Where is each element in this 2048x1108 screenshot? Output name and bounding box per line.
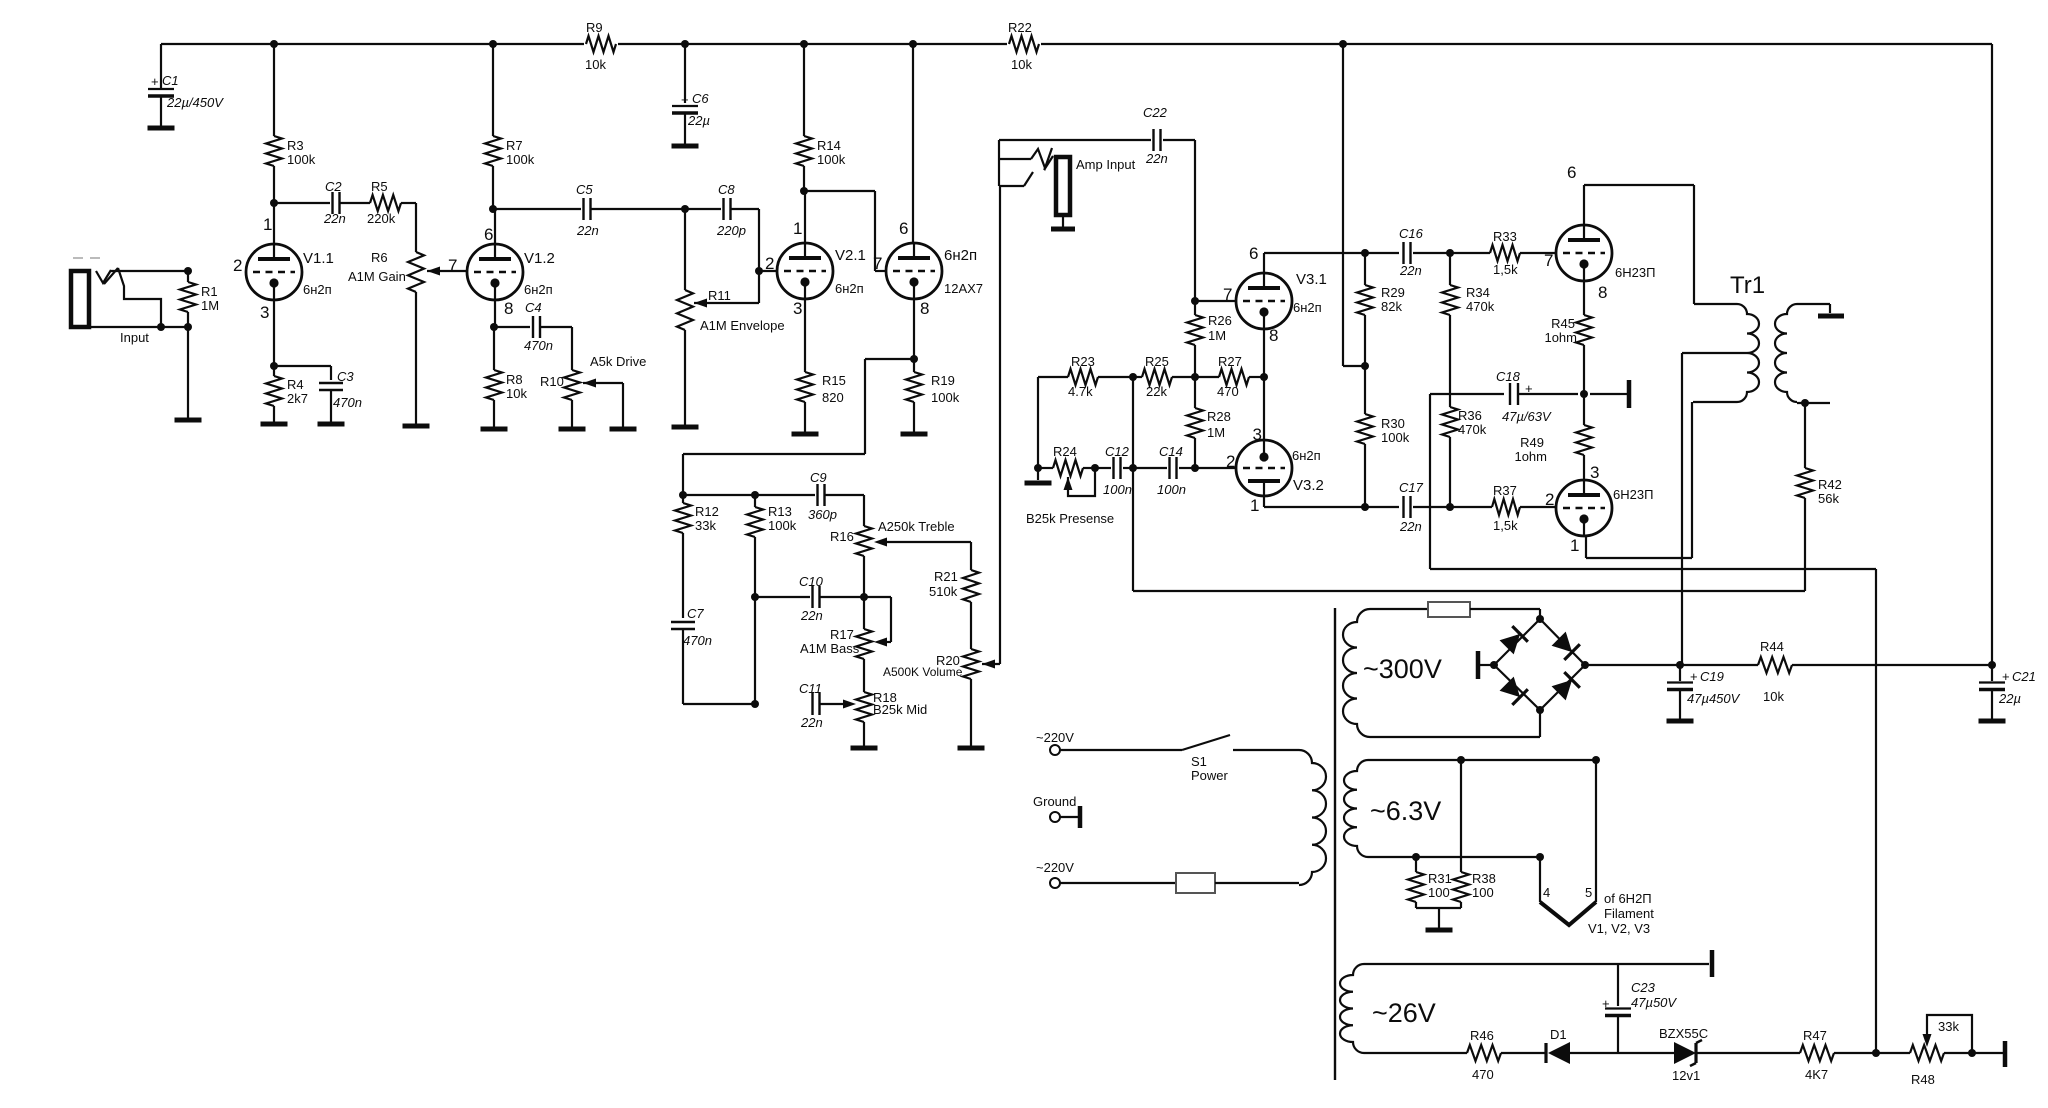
wire: C7 bottom bbox=[683, 703, 755, 705]
svg-text:470: 470 bbox=[1217, 384, 1239, 399]
svg-text:R21: R21 bbox=[934, 569, 958, 584]
wire: to V2.2 grid bbox=[804, 190, 875, 192]
node: R24 right bbox=[1091, 464, 1099, 472]
svg-text:470k: 470k bbox=[1466, 299, 1495, 314]
resistor R13 100k bbox=[754, 495, 756, 507]
svg-text:~6.3V: ~6.3V bbox=[1370, 796, 1441, 826]
capacitor C11 22n bbox=[811, 693, 813, 715]
svg-text:C4: C4 bbox=[525, 300, 542, 315]
ground (R4) bbox=[261, 422, 288, 427]
svg-text:470n: 470n bbox=[524, 338, 553, 353]
wire: V3 shared cathode bbox=[1263, 329, 1265, 440]
node: C12/C14/NFB bbox=[1129, 464, 1137, 472]
capacitor C19 47u450V bbox=[1679, 665, 1681, 681]
svg-text:3: 3 bbox=[793, 299, 802, 318]
svg-text:3: 3 bbox=[1590, 463, 1599, 482]
ground (R10) bbox=[559, 427, 586, 432]
wire: V1.1 anode to C2 bbox=[274, 202, 330, 204]
node: R34 top bbox=[1446, 249, 1454, 257]
resistor R38 100 bbox=[1460, 760, 1462, 872]
potentiometer R10 A5k Drive bbox=[564, 370, 580, 400]
node: R14 bottom / V2.1 anode bbox=[800, 187, 808, 195]
wire: V1.2 cathode bbox=[494, 300, 496, 327]
svg-text:3: 3 bbox=[260, 303, 269, 322]
resistor R27 470 bbox=[1219, 369, 1249, 385]
amp input jack bbox=[998, 140, 1000, 159]
wire: bias row bbox=[1364, 1052, 1467, 1054]
capacitor C8 220p bbox=[685, 208, 721, 210]
svg-text:A250k Treble: A250k Treble bbox=[878, 519, 955, 534]
svg-text:R27: R27 bbox=[1218, 354, 1242, 369]
ground (input) bbox=[175, 418, 202, 423]
svg-text:6н2п: 6н2п bbox=[1292, 448, 1321, 463]
svg-text:R29: R29 bbox=[1381, 285, 1405, 300]
wire: V4 anode to Tr1 bbox=[1583, 185, 1585, 225]
svg-text:R42: R42 bbox=[1818, 477, 1842, 492]
resistor R28 1M bbox=[1194, 377, 1196, 408]
svg-text:6: 6 bbox=[484, 225, 493, 244]
resistor R8 10k bbox=[493, 327, 495, 370]
node: sleeve/arm bbox=[157, 323, 165, 331]
svg-text:R24: R24 bbox=[1053, 444, 1077, 459]
svg-text:of 6Н2П: of 6Н2П bbox=[1604, 891, 1652, 906]
svg-text:V3.2: V3.2 bbox=[1293, 477, 1324, 494]
ground (amp jack) bbox=[1051, 227, 1075, 232]
winding ~26V bbox=[1340, 964, 1364, 1053]
potentiometer R11 A1M Envelope bbox=[684, 209, 686, 290]
svg-text:47µ50V: 47µ50V bbox=[1631, 995, 1677, 1010]
svg-text:R46: R46 bbox=[1470, 1028, 1494, 1043]
svg-text:33k: 33k bbox=[1938, 1019, 1959, 1034]
node: pin4 feed bbox=[1536, 853, 1544, 861]
capacitor C7 470n bbox=[671, 621, 695, 623]
wire: V5 anode to Tr1 bottom bbox=[1585, 536, 1587, 558]
node: cathode tap bbox=[910, 355, 918, 363]
node: R1 bottom bbox=[184, 323, 192, 331]
tube V3.1 triode 6n2p bbox=[1236, 273, 1292, 329]
svg-text:47µ450V: 47µ450V bbox=[1687, 691, 1741, 706]
svg-text:C18: C18 bbox=[1496, 369, 1521, 384]
svg-text:R19: R19 bbox=[931, 373, 955, 388]
svg-text:V1, V2, V3: V1, V2, V3 bbox=[1588, 921, 1650, 936]
capacitor C10 22n bbox=[755, 596, 810, 598]
node: R29/R30 bbox=[1361, 362, 1369, 370]
svg-text:C19: C19 bbox=[1700, 669, 1724, 684]
svg-text:R7: R7 bbox=[506, 138, 523, 153]
svg-text:6н2п: 6н2п bbox=[1293, 300, 1322, 315]
terminal ~220V line bbox=[1050, 745, 1060, 755]
svg-text:C17: C17 bbox=[1399, 480, 1424, 495]
wire: tone stack top row bbox=[683, 494, 815, 496]
ground (R11) bbox=[672, 425, 699, 430]
capacitor C23 47u50V bbox=[1617, 964, 1619, 1006]
svg-text:R45: R45 bbox=[1551, 316, 1575, 331]
svg-text:C22: C22 bbox=[1143, 105, 1168, 120]
winding ~300V bbox=[1343, 609, 1370, 737]
svg-text:+: + bbox=[681, 92, 689, 107]
svg-text:Amp Input: Amp Input bbox=[1076, 157, 1136, 172]
terminal (C18) bbox=[1627, 380, 1632, 408]
capacitor C6 22u bbox=[684, 44, 686, 103]
ground (C19) bbox=[1667, 719, 1694, 724]
node: V3.2 grid bbox=[1191, 464, 1199, 472]
capacitor C3 470n bbox=[274, 365, 331, 367]
svg-text:2: 2 bbox=[1545, 490, 1554, 509]
bridge rectifier bbox=[1494, 619, 1540, 665]
svg-text:+: + bbox=[1602, 996, 1610, 1011]
svg-text:R9: R9 bbox=[586, 20, 603, 35]
svg-text:V1.2: V1.2 bbox=[524, 250, 555, 267]
svg-text:22µ/450V: 22µ/450V bbox=[166, 95, 224, 110]
resistor R14 100k bbox=[803, 44, 805, 136]
wire: V2.2 cathode to tone stack bbox=[865, 358, 914, 360]
svg-text:R34: R34 bbox=[1466, 285, 1490, 300]
resistor R12 33k bbox=[682, 495, 684, 503]
node: R13 bottom bbox=[751, 593, 759, 601]
svg-text:100k: 100k bbox=[931, 390, 960, 405]
svg-text:R30: R30 bbox=[1381, 416, 1405, 431]
svg-text:A1M Envelope: A1M Envelope bbox=[700, 318, 785, 333]
node: speaker out bbox=[1801, 399, 1809, 407]
resistor R5 220k bbox=[370, 195, 401, 211]
filament connector pins 4/5 bbox=[1539, 857, 1541, 902]
node: rail junction V2.2 anode bbox=[909, 40, 917, 48]
node: V2.1 grid bbox=[755, 267, 763, 275]
node: R30 bottom bbox=[1361, 503, 1369, 511]
svg-text:C21: C21 bbox=[2012, 669, 2036, 684]
svg-text:7: 7 bbox=[1223, 285, 1232, 304]
svg-text:100k: 100k bbox=[768, 518, 797, 533]
svg-text:7: 7 bbox=[1544, 251, 1553, 270]
svg-text:6: 6 bbox=[1567, 163, 1576, 182]
Tr1 secondary bottom bbox=[1797, 402, 1830, 404]
capacitor C17 22n bbox=[1402, 496, 1404, 518]
svg-text:3: 3 bbox=[1253, 425, 1262, 444]
capacitor C9 360p bbox=[816, 484, 818, 506]
svg-text:8: 8 bbox=[920, 299, 929, 318]
fuse (HT) bbox=[1428, 602, 1470, 617]
node: V3 cathodes bbox=[1260, 373, 1268, 381]
svg-text:R48: R48 bbox=[1911, 1072, 1935, 1087]
potentiometer R16 A250k Treble bbox=[863, 495, 865, 526]
ground (R8) bbox=[481, 427, 508, 432]
ground (C6) bbox=[672, 144, 699, 149]
svg-text:R5: R5 bbox=[371, 179, 388, 194]
wire: amp input line bbox=[999, 139, 1151, 141]
svg-text:R26: R26 bbox=[1208, 313, 1232, 328]
node: bridge bottom bbox=[1536, 706, 1544, 714]
switch S1 Power bbox=[1060, 749, 1182, 751]
svg-text:C11: C11 bbox=[799, 681, 822, 696]
svg-text:D1: D1 bbox=[1550, 1027, 1567, 1042]
svg-text:220p: 220p bbox=[716, 223, 746, 238]
resistor R47 4K7 bbox=[1800, 1045, 1834, 1061]
node: R36 bottom bbox=[1446, 503, 1454, 511]
node: R38 top bbox=[1457, 756, 1465, 764]
node: R13 top bbox=[751, 491, 759, 499]
svg-text:C2: C2 bbox=[325, 179, 342, 194]
svg-text:C8: C8 bbox=[718, 182, 735, 197]
ground (speaker) bbox=[1818, 314, 1844, 319]
svg-text:6н2п: 6н2п bbox=[944, 247, 977, 264]
Tr1 secondary top to ground bbox=[1797, 303, 1830, 305]
potentiometer R24 B25k Presense bbox=[1034, 464, 1042, 472]
wire: input ground bbox=[187, 327, 189, 418]
node: rail junction R14 bbox=[800, 40, 808, 48]
mains transformer primary bbox=[1299, 750, 1326, 885]
node: C19/R44 bbox=[1676, 661, 1684, 669]
svg-text:6Н23П: 6Н23П bbox=[1613, 487, 1653, 502]
svg-text:R23: R23 bbox=[1071, 354, 1095, 369]
svg-text:10k: 10k bbox=[585, 57, 606, 72]
svg-text:R8: R8 bbox=[506, 372, 523, 387]
svg-text:C12: C12 bbox=[1105, 444, 1130, 459]
svg-text:R4: R4 bbox=[287, 377, 304, 392]
ground (R10 wiper) bbox=[610, 427, 637, 432]
node: R1 top bbox=[184, 267, 192, 275]
node: V1.2 anode bbox=[489, 205, 497, 213]
node: bridge left bbox=[1490, 661, 1498, 669]
svg-text:22µ: 22µ bbox=[687, 113, 710, 128]
svg-text:100k: 100k bbox=[817, 152, 846, 167]
svg-text:22n: 22n bbox=[1399, 519, 1422, 534]
potentiometer R48 33k bbox=[1910, 1045, 1944, 1061]
ground (R15) bbox=[792, 432, 819, 437]
potentiometer R17 A1M Bass bbox=[863, 597, 865, 629]
node: R25/R27/R26/R28 bbox=[1191, 373, 1199, 381]
svg-text:R47: R47 bbox=[1803, 1028, 1827, 1043]
resistor R1 1M bbox=[187, 271, 189, 282]
svg-text:R25: R25 bbox=[1145, 354, 1169, 369]
capacitor C21 22u bbox=[1991, 665, 1993, 681]
resistor R25 22k bbox=[1142, 369, 1172, 385]
svg-text:6н2п: 6н2п bbox=[835, 281, 864, 296]
svg-text:C10: C10 bbox=[799, 574, 824, 589]
svg-text:8: 8 bbox=[1269, 326, 1278, 345]
node: bridge right bbox=[1581, 661, 1589, 669]
svg-text:1,5k: 1,5k bbox=[1493, 262, 1518, 277]
svg-text:10k: 10k bbox=[1763, 689, 1784, 704]
node: C21/R44 bbox=[1988, 661, 1996, 669]
resistor R45 1ohm bbox=[1583, 281, 1585, 315]
ground (filament) bbox=[1426, 928, 1453, 933]
svg-text:C9: C9 bbox=[810, 470, 827, 485]
svg-text:C14: C14 bbox=[1159, 444, 1183, 459]
ground (R20) bbox=[958, 746, 985, 751]
svg-text:100n: 100n bbox=[1103, 482, 1132, 497]
ground (C3) bbox=[318, 422, 345, 427]
resistor R44 10k bbox=[1680, 664, 1758, 666]
ground (C1) bbox=[148, 126, 175, 131]
svg-text:R33: R33 bbox=[1493, 229, 1517, 244]
node: R23/R25 bbox=[1129, 373, 1137, 381]
Tr1 primary center tap bbox=[1682, 352, 1747, 354]
resistor R4 2k7 bbox=[273, 366, 275, 376]
svg-text:C3: C3 bbox=[337, 369, 354, 384]
svg-text:Input: Input bbox=[120, 330, 149, 345]
tube V5 output 6N23P lower bbox=[1556, 480, 1612, 536]
resistor R30 100k bbox=[1364, 366, 1366, 414]
wire: C22 to V3.1 grid bbox=[1194, 140, 1196, 301]
svg-text:C6: C6 bbox=[692, 91, 709, 106]
tube V2.2 triode 6n2p/12AX7 bbox=[886, 243, 942, 299]
diode D1 bbox=[1548, 1042, 1570, 1064]
terminal ~220V neutral bbox=[1050, 878, 1060, 888]
svg-text:6: 6 bbox=[899, 219, 908, 238]
svg-text:R44: R44 bbox=[1760, 639, 1784, 654]
svg-text:1ohm: 1ohm bbox=[1544, 330, 1577, 345]
input jack bbox=[71, 271, 89, 327]
svg-text:2: 2 bbox=[233, 256, 242, 275]
tube V1.1 triode 6n2p bbox=[246, 244, 302, 300]
Tr1 primary bottom bbox=[1693, 401, 1737, 403]
svg-text:6Н23П: 6Н23П bbox=[1615, 265, 1655, 280]
svg-text:C5: C5 bbox=[576, 182, 593, 197]
wire: V1.1 cathode bbox=[273, 300, 275, 366]
winding ~6.3V bbox=[1344, 760, 1368, 857]
svg-text:820: 820 bbox=[822, 390, 844, 405]
svg-text:R3: R3 bbox=[287, 138, 304, 153]
svg-text:R13: R13 bbox=[768, 504, 792, 519]
resistor R22 bbox=[1007, 32, 1041, 56]
wire: B+ drop to phase inverter bbox=[1342, 44, 1344, 366]
resistor R29 82k bbox=[1364, 253, 1366, 285]
diode bridge D-bottomright bbox=[1551, 672, 1580, 701]
svg-text:2k7: 2k7 bbox=[287, 391, 308, 406]
terminal (bias out) bbox=[2003, 1041, 2008, 1067]
fuse (mains) bbox=[1176, 873, 1215, 893]
svg-text:100: 100 bbox=[1472, 885, 1494, 900]
svg-text:100k: 100k bbox=[1381, 430, 1410, 445]
svg-text:100k: 100k bbox=[506, 152, 535, 167]
svg-text:6н2п: 6н2п bbox=[524, 282, 553, 297]
svg-text:22k: 22k bbox=[1146, 384, 1167, 399]
resistor R31 100 bbox=[1415, 857, 1417, 872]
svg-text:4.7k: 4.7k bbox=[1068, 384, 1093, 399]
svg-text:R16: R16 bbox=[830, 529, 854, 544]
svg-text:~26V: ~26V bbox=[1372, 998, 1436, 1028]
capacitor C2 22n bbox=[331, 192, 333, 214]
terminal Ground bbox=[1050, 812, 1060, 822]
svg-text:BZX55C: BZX55C bbox=[1659, 1026, 1708, 1041]
svg-text:S1: S1 bbox=[1191, 754, 1207, 769]
node: R3 bottom / V1.1 anode bbox=[270, 199, 278, 207]
svg-text:4K7: 4K7 bbox=[1805, 1067, 1828, 1082]
resistor R15 820 bbox=[797, 372, 813, 402]
node: cathode/C4 bbox=[490, 323, 498, 331]
svg-text:R37: R37 bbox=[1493, 483, 1517, 498]
svg-text:470n: 470n bbox=[683, 633, 712, 648]
faint cable dashes bbox=[73, 257, 83, 259]
svg-text:10k: 10k bbox=[1011, 57, 1032, 72]
wire: B+ raw bbox=[1585, 664, 1680, 666]
svg-text:7: 7 bbox=[873, 254, 882, 273]
wire: bias feed bbox=[1429, 394, 1431, 569]
svg-text:R49: R49 bbox=[1520, 435, 1544, 450]
svg-text:A1M Bass: A1M Bass bbox=[800, 641, 860, 656]
node: C5/C8/R11 bbox=[681, 205, 689, 213]
capacitor C1 22u/450V bbox=[160, 44, 162, 89]
diode bridge D-bottomleft bbox=[1499, 676, 1528, 705]
svg-text:+: + bbox=[2002, 669, 2010, 684]
resistor R9 bbox=[584, 32, 618, 56]
wire: sleeve bottom bbox=[89, 326, 188, 328]
svg-text:R17: R17 bbox=[830, 627, 854, 642]
Tr1 primary winding bbox=[1737, 304, 1759, 402]
svg-text:22n: 22n bbox=[1399, 263, 1422, 278]
terminal (26V top) bbox=[1710, 950, 1715, 977]
tube V2.1 triode 6n2p bbox=[777, 243, 833, 299]
svg-text:A500K Volume: A500K Volume bbox=[883, 665, 963, 679]
zener BZX55C 12v1 bbox=[1674, 1042, 1696, 1064]
wire: V2.2 cathode bbox=[913, 299, 915, 372]
resistor R46 470 bbox=[1467, 1045, 1501, 1061]
svg-text:B25k Presense: B25k Presense bbox=[1026, 511, 1114, 526]
resistor R3 100k bbox=[273, 44, 275, 136]
tube V4 output 6N23P upper bbox=[1556, 225, 1612, 281]
node: R48 right bbox=[1968, 1049, 1976, 1057]
potentiometer R20 A500K Volume bbox=[963, 649, 979, 679]
svg-text:R28: R28 bbox=[1207, 409, 1231, 424]
svg-text:47µ/63V: 47µ/63V bbox=[1502, 409, 1552, 424]
svg-text:R6: R6 bbox=[371, 250, 388, 265]
svg-text:R12: R12 bbox=[695, 504, 719, 519]
svg-text:22n: 22n bbox=[800, 608, 823, 623]
capacitor C14 100n bbox=[1133, 467, 1167, 469]
svg-text:C7: C7 bbox=[687, 606, 704, 621]
wire: B+ top rail bbox=[161, 43, 1992, 45]
ground (R24) bbox=[1037, 468, 1039, 480]
svg-text:22n: 22n bbox=[1145, 151, 1168, 166]
svg-text:Ground: Ground bbox=[1033, 794, 1076, 809]
svg-text:R10: R10 bbox=[540, 374, 564, 389]
capacitor C18 47u/63V bbox=[1509, 383, 1511, 405]
terminal (bridge left) bbox=[1480, 664, 1494, 666]
node: V3.1 grid bbox=[1191, 297, 1199, 305]
diode bridge D-topleft bbox=[1499, 626, 1528, 655]
ground (R6) bbox=[403, 424, 430, 429]
svg-text:100n: 100n bbox=[1157, 482, 1186, 497]
tube V1.2 triode 6n2p bbox=[467, 244, 523, 300]
node: R16 bottom bbox=[860, 593, 868, 601]
chassis ground bar bbox=[1078, 806, 1083, 828]
svg-text:22µ: 22µ bbox=[1998, 691, 2021, 706]
svg-text:1: 1 bbox=[1570, 536, 1579, 555]
svg-text:12v1: 12v1 bbox=[1672, 1068, 1700, 1083]
resistor R33 1,5k bbox=[1490, 245, 1520, 261]
diode bridge D-topright bbox=[1551, 631, 1580, 660]
resistor R42 56k bbox=[1804, 403, 1806, 468]
resistor R34 470k bbox=[1449, 253, 1451, 285]
svg-text:R31: R31 bbox=[1428, 871, 1452, 886]
svg-text:220k: 220k bbox=[367, 211, 396, 226]
svg-text:12AX7: 12AX7 bbox=[944, 281, 983, 296]
svg-text:10k: 10k bbox=[506, 386, 527, 401]
svg-text:R11: R11 bbox=[708, 288, 731, 303]
capacitor C5 22n bbox=[493, 208, 581, 210]
capacitor C4 470n bbox=[494, 326, 530, 328]
svg-text:2: 2 bbox=[765, 254, 774, 273]
node: C18/R45/R49 bbox=[1580, 390, 1588, 398]
svg-text:360p: 360p bbox=[808, 507, 837, 522]
svg-text:R38: R38 bbox=[1472, 871, 1496, 886]
svg-text:1,5k: 1,5k bbox=[1493, 518, 1518, 533]
svg-text:4: 4 bbox=[1543, 885, 1550, 900]
node: R29 top bbox=[1361, 249, 1369, 257]
svg-text:A5k Drive: A5k Drive bbox=[590, 354, 646, 369]
svg-text:R15: R15 bbox=[822, 373, 846, 388]
svg-text:470n: 470n bbox=[333, 395, 362, 410]
